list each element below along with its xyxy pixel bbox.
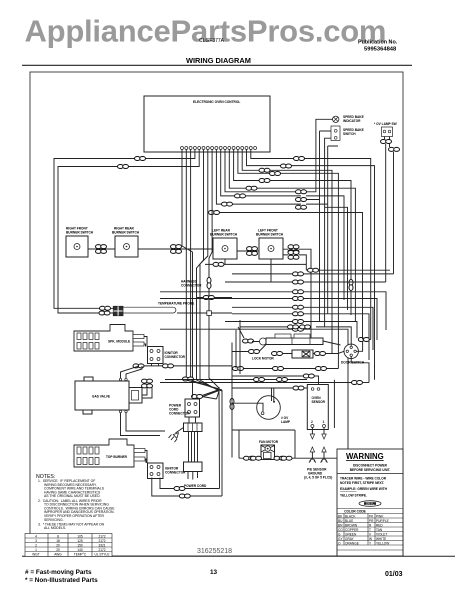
svg-text:ORANGE: ORANGE bbox=[345, 541, 359, 545]
svg-text:(3, 4, 5 OF 5 PLCS): (3, 4, 5 OF 5 PLCS) bbox=[304, 476, 332, 480]
wire bbox=[58, 150, 199, 314]
wire bbox=[169, 435, 178, 443]
svg-text:3321: 3321 bbox=[98, 543, 105, 547]
wire bbox=[312, 447, 324, 453]
ground symbol bbox=[176, 428, 184, 434]
wire bbox=[221, 150, 240, 196]
svg-text:BLUE: BLUE bbox=[345, 519, 353, 523]
svg-text:BN: BN bbox=[338, 523, 343, 527]
svg-text:TEMP°C: TEMP°C bbox=[74, 552, 87, 556]
connector on vertical wire bbox=[349, 280, 353, 291]
bottom rule bbox=[22, 555, 455, 557]
wire bbox=[303, 299, 377, 341]
svg-text:8: 8 bbox=[57, 534, 59, 538]
svg-text:COPPER: COPPER bbox=[345, 528, 359, 532]
speed bake indicator bbox=[333, 115, 364, 123]
svg-text:BURNER SWITCH: BURNER SWITCH bbox=[66, 231, 94, 235]
connector pair bbox=[288, 251, 299, 260]
wire lamp circuit down right side bbox=[386, 144, 394, 282]
svg-text:5995364848: 5995364848 bbox=[364, 47, 397, 53]
connector bbox=[288, 325, 299, 329]
svg-text:* OV LAMP SW: * OV LAMP SW bbox=[374, 122, 397, 126]
svg-text:PINK: PINK bbox=[376, 514, 384, 518]
wire bbox=[232, 388, 307, 412]
wires right area horizontals bbox=[232, 368, 338, 370]
svg-text:TOP BURNER: TOP BURNER bbox=[106, 455, 128, 459]
connector bbox=[293, 272, 304, 276]
svg-text:GAS VALVE: GAS VALVE bbox=[92, 395, 110, 399]
connector bbox=[315, 352, 326, 356]
wire bbox=[160, 291, 296, 293]
EOC pin row bbox=[181, 147, 257, 150]
svg-text:RED: RED bbox=[376, 523, 383, 527]
right rear burner switch S2 bbox=[112, 227, 140, 258]
svg-text:ELECTRONIC OVEN CONTROL: ELECTRONIC OVEN CONTROL bbox=[193, 100, 240, 104]
svg-text:BEFORE SERVICING UNIT.: BEFORE SERVICING UNIT. bbox=[350, 468, 391, 472]
svg-text:# = Fast-moving Parts: # = Fast-moving Parts bbox=[25, 569, 92, 576]
svg-text:316255218: 316255218 bbox=[197, 548, 232, 555]
connector bbox=[222, 202, 233, 206]
connector bbox=[277, 378, 288, 382]
connector bbox=[294, 157, 305, 161]
connector bbox=[244, 456, 255, 460]
temperature probe P1 bbox=[99, 302, 194, 316]
oven lamp switch bbox=[374, 122, 397, 137]
svg-text:105: 105 bbox=[77, 534, 83, 538]
svg-text:WARNING: WARNING bbox=[346, 452, 384, 461]
connector pair bbox=[247, 247, 258, 256]
connector bbox=[192, 395, 203, 399]
wire bbox=[225, 321, 296, 323]
connector bbox=[233, 367, 244, 371]
connector bbox=[281, 164, 292, 168]
spark module A1 bbox=[74, 325, 144, 352]
left front burner switch S4 bbox=[256, 229, 284, 260]
wire bbox=[316, 327, 371, 383]
door switch bbox=[341, 344, 365, 364]
svg-text:VIOLET: VIOLET bbox=[376, 532, 387, 536]
svg-text:SWITCH: SWITCH bbox=[343, 132, 356, 136]
svg-text:13: 13 bbox=[210, 569, 218, 576]
svg-text:INDICATOR: INDICATOR bbox=[343, 119, 361, 123]
oven lamp bbox=[257, 396, 291, 424]
connector bbox=[254, 378, 265, 382]
svg-text:W: W bbox=[369, 537, 372, 541]
connector pair bbox=[288, 245, 299, 254]
wire bbox=[261, 446, 275, 453]
wire fan right of EOC: stepped horizontals bbox=[251, 150, 371, 340]
wire bbox=[165, 379, 307, 381]
gas valve bbox=[75, 377, 142, 414]
connector bbox=[270, 172, 281, 176]
svg-text:* = Non-Illustrated Parts: * = Non-Illustrated Parts bbox=[25, 577, 98, 584]
wire bbox=[216, 150, 227, 205]
svg-text:TEMPERATURE PROBE: TEMPERATURE PROBE bbox=[158, 302, 194, 306]
svg-text:CONNECTOR: CONNECTOR bbox=[165, 355, 186, 359]
connector bbox=[249, 350, 260, 354]
wire bbox=[160, 298, 296, 300]
svg-text:LOCK MOTOR: LOCK MOTOR bbox=[252, 357, 274, 361]
middle vertical harness bundle from EOC to power knot bbox=[186, 150, 219, 392]
svg-text:2172: 2172 bbox=[98, 539, 105, 543]
wire spark module to connector bbox=[144, 337, 147, 347]
diagram frame bbox=[30, 72, 403, 556]
svg-text:125: 125 bbox=[77, 539, 83, 543]
wire bbox=[160, 382, 357, 384]
wire connector to bus bbox=[140, 364, 232, 366]
fan motor bbox=[259, 440, 279, 460]
wire bbox=[160, 328, 296, 330]
svg-text:FAN MOTOR: FAN MOTOR bbox=[259, 440, 279, 444]
right front burner switch S1 bbox=[66, 227, 94, 258]
svg-text:01/03: 01/03 bbox=[385, 571, 403, 578]
connector bbox=[296, 190, 307, 194]
svg-text:POWER CORD: POWER CORD bbox=[184, 484, 207, 488]
sensor leads with arrows bbox=[312, 428, 324, 435]
wires from EOC pins down-left to left bus bbox=[54, 150, 195, 309]
speed bake wires down bbox=[296, 119, 338, 327]
ignitor connector block bbox=[148, 347, 186, 364]
connector on left bus bbox=[230, 399, 234, 410]
svg-text:CONNECTOR: CONNECTOR bbox=[181, 284, 202, 288]
svg-text:CONNECTOR: CONNECTOR bbox=[169, 412, 190, 416]
connector bbox=[352, 381, 363, 385]
connector bbox=[179, 494, 190, 498]
wire bbox=[229, 150, 355, 322]
connector bbox=[358, 338, 369, 342]
wire bbox=[303, 314, 369, 360]
connector bbox=[296, 198, 307, 202]
svg-text:WIRING DIAGRAM: WIRING DIAGRAM bbox=[186, 56, 251, 65]
svg-text:AS THE ORIGINAL MUST BE USED.: AS THE ORIGINAL MUST BE USED. bbox=[44, 494, 101, 498]
power cord knot junction bbox=[192, 387, 222, 496]
connector bbox=[243, 339, 254, 343]
svg-text:GREEN: GREEN bbox=[345, 532, 357, 536]
connector bbox=[293, 280, 304, 284]
wire bbox=[225, 150, 296, 192]
svg-text:1: 1 bbox=[323, 420, 325, 424]
svg-text:AWG: AWG bbox=[54, 552, 62, 556]
wire bbox=[303, 307, 373, 350]
wire bbox=[303, 281, 386, 283]
color code table bbox=[337, 509, 403, 551]
wire gauge table bbox=[25, 534, 112, 557]
svg-text:EXAMPLE: GREEN WIRE WITH: EXAMPLE: GREEN WIRE WITH bbox=[340, 487, 388, 491]
svg-text:20: 20 bbox=[56, 543, 60, 547]
wire bbox=[234, 150, 351, 316]
svg-text:140: 140 bbox=[77, 548, 83, 552]
svg-text:WHITE: WHITE bbox=[376, 537, 386, 541]
wire gas valve bottom down bbox=[121, 413, 166, 436]
svg-text:BU: BU bbox=[338, 519, 343, 523]
svg-text:SENSOR: SENSOR bbox=[312, 400, 326, 404]
connector bbox=[389, 147, 400, 151]
wire bbox=[238, 150, 339, 369]
svg-text:NOTED FIRST, STRIPE NEXT.: NOTED FIRST, STRIPE NEXT. bbox=[340, 481, 384, 485]
wire bbox=[242, 150, 332, 354]
connector bbox=[163, 364, 174, 368]
wire lamp sw leads bbox=[385, 137, 390, 148]
connector bbox=[272, 352, 283, 356]
svg-text:BURNER SWITCH: BURNER SWITCH bbox=[112, 231, 140, 235]
svg-text:20: 20 bbox=[56, 548, 60, 552]
svg-text:GN-YL: GN-YL bbox=[366, 502, 374, 506]
wire bbox=[303, 329, 348, 370]
svg-text:PURPLE: PURPLE bbox=[376, 519, 389, 523]
connector bbox=[293, 297, 304, 301]
wire gas valve top to ignitor bus bbox=[121, 366, 143, 378]
svg-text:1: 1 bbox=[35, 548, 37, 552]
warning box bbox=[337, 449, 403, 556]
svg-text:Publication No.: Publication No. bbox=[358, 40, 398, 46]
connector bbox=[381, 140, 392, 144]
connector bbox=[293, 327, 304, 331]
connector bbox=[273, 367, 284, 371]
connector bbox=[259, 168, 270, 172]
svg-text:LAMP: LAMP bbox=[281, 420, 291, 424]
connector bbox=[293, 320, 304, 324]
wire bbox=[177, 312, 232, 314]
power cord wires bbox=[189, 432, 198, 463]
connector bbox=[174, 487, 185, 491]
connector bbox=[293, 386, 304, 390]
connector bbox=[296, 205, 307, 209]
left edge long verticals region bbox=[232, 320, 240, 458]
electronic oven control U1 bbox=[144, 96, 270, 152]
lock motor assembly bbox=[252, 334, 323, 361]
svg-text:ALL MODELS.: ALL MODELS. bbox=[44, 526, 66, 530]
svg-text:SPK. MODULE: SPK. MODULE bbox=[108, 340, 130, 344]
wire bbox=[309, 453, 328, 463]
wire bbox=[212, 207, 362, 337]
svg-text:COLOR CODE: COLOR CODE bbox=[344, 510, 366, 514]
latch switch bbox=[292, 350, 313, 358]
connector bbox=[308, 268, 319, 272]
connector bbox=[303, 374, 314, 378]
long stepped horizontals middle-right bbox=[232, 273, 296, 275]
wire bbox=[182, 150, 219, 389]
connector bbox=[293, 290, 304, 294]
junction block bbox=[207, 311, 212, 316]
wire bbox=[303, 322, 357, 339]
bottom loop wires bbox=[152, 478, 222, 497]
oven sensor bbox=[307, 385, 328, 430]
connector bbox=[251, 456, 262, 460]
top burner spark switch bbox=[74, 439, 145, 467]
connector bbox=[293, 305, 304, 309]
connector bbox=[135, 157, 146, 161]
svg-text:CLGF377A: CLGF377A bbox=[199, 38, 225, 44]
connector bbox=[183, 377, 194, 381]
wire gas valve right to oval bbox=[142, 384, 152, 399]
connector bbox=[246, 186, 257, 190]
svg-text:2: 2 bbox=[311, 420, 313, 424]
connector bbox=[235, 194, 246, 198]
header rule bbox=[22, 64, 412, 66]
svg-text:TRACER WIRE - WIRE COLOR: TRACER WIRE - WIRE COLOR bbox=[340, 477, 387, 481]
wire bbox=[245, 196, 344, 300]
connector bbox=[281, 456, 292, 460]
wire bbox=[225, 260, 296, 283]
connector bbox=[213, 262, 224, 266]
svg-text:BURNER SWITCH: BURNER SWITCH bbox=[256, 233, 284, 237]
wire bbox=[232, 370, 348, 458]
svg-text:150: 150 bbox=[77, 543, 83, 547]
connector pair bbox=[142, 379, 153, 388]
svg-text:2172: 2172 bbox=[98, 534, 105, 538]
burner switch row bus wire bbox=[88, 249, 390, 338]
power cord plug block bbox=[184, 462, 203, 472]
wire bbox=[282, 351, 346, 353]
wire bbox=[303, 292, 386, 330]
connector bbox=[118, 165, 129, 169]
svg-text:CO: CO bbox=[338, 528, 343, 532]
svg-text:2172: 2172 bbox=[98, 548, 105, 552]
connector pair bbox=[96, 245, 107, 254]
wire bbox=[240, 326, 288, 328]
wire bbox=[192, 380, 217, 399]
svg-text:UL STYLE: UL STYLE bbox=[95, 552, 110, 556]
svg-text:2: 2 bbox=[35, 543, 37, 547]
speed bake switch bbox=[331, 126, 364, 141]
svg-text:BLACK: BLACK bbox=[345, 514, 356, 518]
wire top burner to lower connector bbox=[145, 451, 147, 464]
wire bbox=[205, 263, 232, 265]
svg-text:YELLOW: YELLOW bbox=[376, 541, 389, 545]
connector bbox=[259, 179, 270, 183]
connector bbox=[133, 364, 144, 368]
connector bbox=[209, 211, 220, 215]
wire bbox=[232, 313, 296, 315]
connector bbox=[316, 367, 327, 371]
svg-text:3: 3 bbox=[35, 539, 37, 543]
power cord connector block bbox=[169, 399, 200, 417]
wire bbox=[188, 472, 198, 480]
connector bbox=[274, 456, 285, 460]
svg-text:4: 4 bbox=[35, 534, 37, 538]
svg-text:YELLOW STRIPE.: YELLOW STRIPE. bbox=[340, 494, 367, 498]
svg-text:WGT: WGT bbox=[32, 552, 39, 556]
svg-text:BROWN: BROWN bbox=[345, 523, 358, 527]
connector bbox=[300, 325, 311, 329]
wire bbox=[302, 351, 310, 357]
left rear burner switch S3 bbox=[210, 229, 238, 260]
svg-text:SERVICING.: SERVICING. bbox=[44, 518, 64, 522]
svg-text:GRAY: GRAY bbox=[345, 537, 355, 541]
wire bbox=[232, 374, 375, 428]
wire bbox=[247, 150, 375, 375]
wire bbox=[303, 273, 394, 275]
svg-text:PR: PR bbox=[369, 519, 374, 523]
notes bbox=[36, 474, 115, 530]
wire bbox=[362, 382, 369, 384]
connector pair bbox=[171, 245, 182, 254]
wire bbox=[197, 297, 233, 299]
svg-text:T: T bbox=[369, 528, 371, 532]
connector bbox=[293, 312, 304, 316]
wire bbox=[232, 306, 296, 308]
svg-text:BURNER SWITCH: BURNER SWITCH bbox=[210, 233, 238, 237]
cord strain relief bbox=[184, 423, 203, 432]
lock sw connector block bbox=[148, 463, 187, 479]
wire bbox=[189, 417, 196, 423]
svg-text:18: 18 bbox=[56, 539, 60, 543]
wire bbox=[232, 203, 301, 205]
connector bbox=[203, 296, 214, 300]
wire bbox=[232, 327, 341, 352]
svg-text:TAN: TAN bbox=[376, 528, 383, 532]
harness connector on vertical wire bbox=[208, 264, 210, 313]
